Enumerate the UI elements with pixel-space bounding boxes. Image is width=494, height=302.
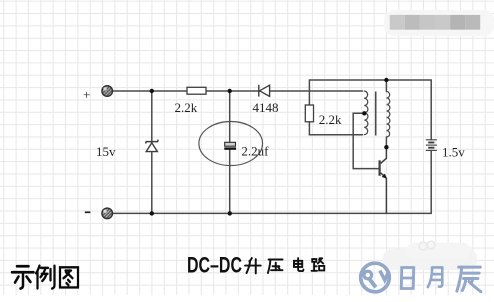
capacitor ellipse [199, 122, 263, 166]
wire: top-right rail [309, 80, 431, 105]
wire: secondary top to rail [385, 80, 387, 92]
wire: secondary bottom to collector node [385, 137, 387, 147]
logo icon ring [361, 263, 390, 292]
resistor 2.2k horizontal [187, 87, 206, 94]
wire: bottom rail [112, 212, 431, 214]
battery 1.5v [426, 140, 437, 151]
logo char 日 [401, 268, 413, 289]
transformer primary winding (loops, tapped) [364, 91, 368, 135]
wire: vertical resistor bottom to coil-bottom rail [309, 122, 362, 135]
watermark mosaic blocks [390, 15, 481, 30]
node: primary tap [362, 111, 366, 115]
logo icon tail [370, 280, 376, 288]
svg-text:+: + [83, 87, 90, 102]
node: zener bottom [150, 211, 154, 215]
node: collector [384, 145, 388, 149]
terminal + (hatched circle) [102, 86, 113, 97]
wire: base drive from tap [353, 113, 378, 168]
node: zener top [150, 89, 154, 93]
wire: zener branch vertical [151, 91, 153, 142]
transformer secondary winding (loops) [386, 91, 390, 137]
svg-text:1.5v: 1.5v [442, 144, 465, 159]
resistor 2.2k vertical [305, 105, 313, 122]
logo cloud circles [419, 242, 427, 250]
wire: top-left rail [113, 90, 363, 92]
label - [85, 211, 91, 213]
svg-text:4148: 4148 [253, 100, 279, 115]
caption char 示 [12, 266, 34, 288]
svg-text:2.2k: 2.2k [319, 112, 342, 127]
svg-text:15v: 15v [96, 144, 116, 159]
transformer core [375, 92, 377, 136]
svg-text:2.2k: 2.2k [175, 100, 198, 115]
title char 压 [268, 259, 283, 273]
watermark white pill [384, 10, 494, 36]
junction dots [150, 78, 389, 216]
logo icon check [380, 271, 389, 281]
node: secondary top rail [384, 78, 388, 82]
capacitor plates [224, 142, 236, 148]
wire: capacitor branch vertical [229, 91, 231, 142]
node: cap bottom [228, 211, 232, 215]
svg-text:DC–DC: DC–DC [187, 253, 242, 278]
wire: battery vertical top [430, 80, 432, 140]
diode 4148 [259, 85, 270, 97]
logo char 月 [428, 267, 442, 287]
logo icon small ring [364, 271, 372, 279]
caption char 例 [36, 266, 55, 289]
zener diode [146, 140, 159, 152]
transistor Q1 (NPN) [380, 147, 387, 213]
logo char 辰 [457, 267, 481, 292]
node: cap top [228, 89, 232, 93]
title char 升 [245, 258, 261, 273]
title char 电 [294, 258, 303, 271]
title char 路 [312, 258, 325, 270]
caption char 图 [60, 267, 78, 287]
wire: battery vertical bottom [430, 151, 432, 214]
terminal - (hatched circle) [102, 208, 113, 219]
logo cloud backdrop [383, 249, 477, 270]
svg-text:2.2uf: 2.2uf [241, 144, 269, 159]
